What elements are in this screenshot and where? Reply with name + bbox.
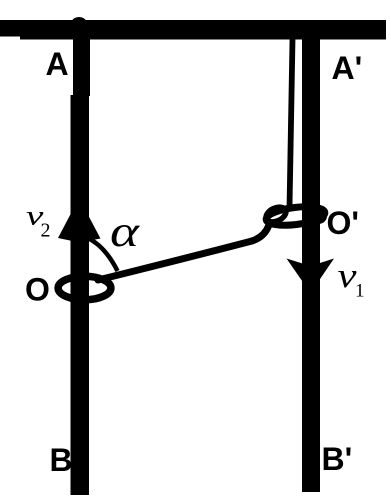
svg-text:1: 1 [355, 281, 365, 302]
svg-text:O': O' [327, 205, 360, 241]
svg-text:A': A' [332, 50, 363, 86]
svg-text:2: 2 [41, 220, 51, 242]
svg-text:B: B [50, 442, 73, 478]
svg-text:O: O [25, 272, 50, 308]
svg-text:α: α [110, 207, 140, 256]
svg-text:A: A [46, 46, 69, 82]
svg-text:B': B' [322, 441, 353, 477]
